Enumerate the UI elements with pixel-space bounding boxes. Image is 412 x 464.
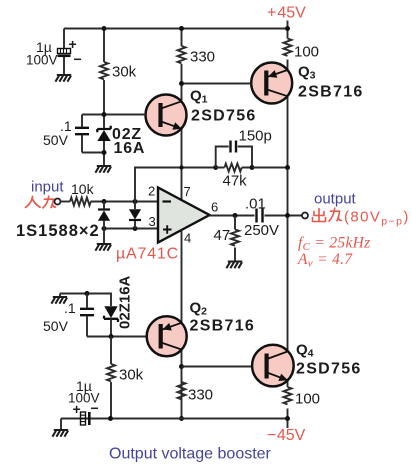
svg-text:.1: .1 xyxy=(64,300,76,316)
capacitor C6 1u 100V bottom xyxy=(81,412,90,425)
wire zener to 30k xyxy=(110,337,112,419)
node dot feedback/rail xyxy=(285,165,290,170)
wire feedback to rail xyxy=(252,167,288,169)
svg-text:−: − xyxy=(74,51,82,67)
wire Q2 base xyxy=(87,336,147,338)
input terminal xyxy=(55,199,61,205)
svg-text:(80Vp−p): (80Vp−p) xyxy=(344,209,410,228)
wire bottom cluster top xyxy=(60,294,111,307)
svg-text:output: output xyxy=(314,191,357,208)
svg-text:2SD756: 2SD756 xyxy=(191,108,257,125)
capacitor C2 .1 50V xyxy=(81,115,83,153)
node dot feedback left xyxy=(213,165,218,170)
svg-text:+: + xyxy=(73,401,81,417)
output terminal xyxy=(302,213,308,219)
resistor R4 10k xyxy=(70,198,91,206)
transistor Q3 body xyxy=(251,63,292,104)
wire pin3 lower xyxy=(104,228,158,230)
svg-text:6: 6 xyxy=(211,200,218,215)
svg-text:Output voltage booster: Output voltage booster xyxy=(109,446,272,463)
svg-text:330: 330 xyxy=(190,49,215,66)
wire input to R4 xyxy=(61,201,71,203)
capacitor C3 150p branch xyxy=(216,147,252,168)
svg-text:30k: 30k xyxy=(112,64,137,81)
svg-text:330: 330 xyxy=(188,387,213,404)
zener D3 02Z16A top xyxy=(97,126,110,141)
svg-text:input: input xyxy=(31,179,64,196)
svg-text:.01: .01 xyxy=(245,196,266,213)
node dot rail/30k bottom xyxy=(108,416,113,421)
svg-text:+45V: +45V xyxy=(267,5,306,22)
wire +45V stub xyxy=(287,21,289,29)
node dot feedback right xyxy=(250,165,255,170)
node dot rail/330 xyxy=(179,26,184,31)
capacitor C5 .1 50V xyxy=(86,294,88,337)
svg-text:Q3: Q3 xyxy=(298,64,316,82)
capacitor C4 .01 250V xyxy=(257,209,263,223)
wire Q1 base xyxy=(82,114,146,116)
transistor Q1 body xyxy=(146,95,187,136)
ground G6 xyxy=(60,419,62,431)
transistor Q2 body xyxy=(147,316,187,356)
label input CJK xyxy=(26,196,56,208)
bottom cluster: ground G5 xyxy=(59,294,61,298)
svg-text:−: − xyxy=(91,400,99,416)
wire D1 ground stub xyxy=(103,229,105,245)
label output CJK xyxy=(313,208,342,221)
svg-text:Av = 4.7: Av = 4.7 xyxy=(297,251,353,270)
svg-text:02Z16A: 02Z16A xyxy=(117,275,134,329)
svg-text:4: 4 xyxy=(184,231,191,246)
svg-text:100: 100 xyxy=(295,391,320,408)
node dots diodes xyxy=(102,199,107,204)
svg-text:µA741C: µA741C xyxy=(116,246,179,263)
node dot cap/zener bottom xyxy=(102,150,107,155)
svg-text:47: 47 xyxy=(214,227,231,244)
svg-text:50V: 50V xyxy=(43,318,69,334)
svg-text:10k: 10k xyxy=(71,181,95,197)
svg-text:1S1588×2: 1S1588×2 xyxy=(16,222,100,240)
wire pin4 down xyxy=(181,230,183,419)
resistor R8 330 xyxy=(178,382,186,399)
node dot cap top xyxy=(85,291,90,296)
wire top rail +45V xyxy=(64,28,288,30)
ground G4 xyxy=(226,262,242,269)
node dot zener/base xyxy=(109,334,114,339)
node dot 330/rail xyxy=(179,416,184,421)
resistor R6 47 xyxy=(231,230,239,246)
node dot output/rail xyxy=(285,213,290,218)
diode D1 1S1588 xyxy=(98,202,110,229)
svg-text:2SB716: 2SB716 xyxy=(298,84,364,101)
wire Q4 base xyxy=(182,366,253,368)
node dot 30k/zener/base xyxy=(102,112,107,117)
wire 47 stub xyxy=(234,216,236,262)
node dot rail/100 bottom xyxy=(285,416,290,421)
resistor R7 30k xyxy=(107,364,115,381)
wire pin6 output xyxy=(210,215,255,217)
svg-text:+: + xyxy=(69,36,77,52)
capacitor C1 1u 100V stub xyxy=(63,29,65,76)
wire feedback vertical from pin2 node xyxy=(135,168,216,202)
svg-text:7: 7 xyxy=(184,184,191,199)
svg-text:3: 3 xyxy=(149,214,156,229)
resistor R1 30k xyxy=(100,62,108,79)
wire right rail x=287.5 top xyxy=(287,29,289,429)
svg-text:Q1: Q1 xyxy=(190,88,208,106)
transistor Q4 body xyxy=(252,345,294,387)
svg-text:Q2: Q2 xyxy=(190,300,208,318)
svg-text:47k: 47k xyxy=(223,173,248,190)
svg-text:100V: 100V xyxy=(26,53,58,68)
svg-text:250V: 250V xyxy=(244,222,279,239)
svg-text:2SD756: 2SD756 xyxy=(296,361,362,378)
svg-text:50V: 50V xyxy=(43,132,69,148)
resistor R2 330 xyxy=(178,46,186,63)
svg-text:16A: 16A xyxy=(114,140,146,157)
resistor R3 100 xyxy=(284,39,292,56)
wire cap to terminal xyxy=(265,215,303,217)
ground G2 xyxy=(95,166,111,173)
node dot Q4 base junction xyxy=(179,364,184,369)
resistor R9 100 xyxy=(284,387,292,404)
wire Q3 base xyxy=(182,83,252,85)
svg-text:−45V: −45V xyxy=(267,427,306,444)
capacitor C1 plates xyxy=(58,49,71,56)
wire R4 to opamp pin2 xyxy=(91,201,159,203)
node dot 330/Q3 base xyxy=(179,81,184,86)
ground G3 xyxy=(95,244,111,251)
svg-text:30k: 30k xyxy=(119,367,144,384)
ground G1 xyxy=(55,75,71,82)
wire left column x=104 xyxy=(103,29,105,167)
wire bottom rail xyxy=(61,418,288,420)
op-amp U1 uA741C xyxy=(158,188,210,243)
wire cap bottom join xyxy=(82,152,104,154)
diode D2 1S1588 xyxy=(129,202,141,229)
resistor R5 47k xyxy=(225,164,242,172)
svg-text:Q4: Q4 xyxy=(296,342,314,360)
svg-text:150p: 150p xyxy=(239,128,272,145)
node dot rail/right xyxy=(285,26,290,31)
wire 330 column x=181.5 xyxy=(181,29,183,201)
node dot output/47 xyxy=(233,213,238,218)
zener D4 02Z16A bottom xyxy=(104,306,118,336)
node dot crossing xyxy=(179,165,183,169)
svg-text:2: 2 xyxy=(148,184,155,199)
svg-text:100: 100 xyxy=(294,44,319,61)
node dot rail/30k xyxy=(102,26,107,31)
svg-text:2SB716: 2SB716 xyxy=(190,318,256,335)
